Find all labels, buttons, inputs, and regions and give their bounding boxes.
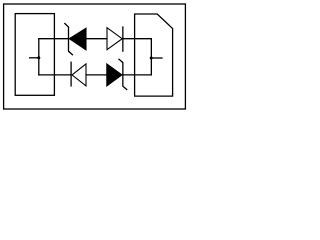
connector J2 (135, 14, 173, 96)
wire left stub (30, 57, 39, 59)
connector J1 (15, 14, 54, 96)
diode D4 (zener, cathode right) (107, 59, 127, 89)
wire left vertical (38, 39, 40, 75)
diode D3 (cathode left) (71, 62, 86, 86)
diode D1 (zener, cathode left) (65, 24, 86, 55)
wire D1-D2 (86, 38, 107, 40)
wire top left (39, 38, 69, 40)
diode D2 (cathode right) (107, 27, 123, 51)
wire right vertical (150, 39, 152, 75)
wire D3-D4 (86, 74, 107, 76)
wire bottom left (39, 74, 71, 76)
node right junction (150, 57, 153, 60)
wire bottom right (123, 74, 152, 76)
wire right stub (151, 57, 162, 59)
node left junction (37, 56, 40, 59)
wire top right (123, 38, 152, 40)
